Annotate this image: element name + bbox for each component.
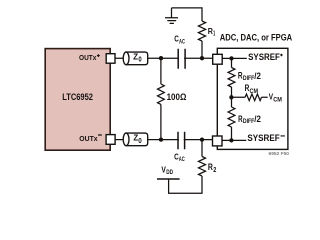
svg-text:SYSREF: SYSREF (248, 52, 280, 62)
svg-text:OUTx: OUTx (79, 53, 97, 62)
svg-text:DIFF: DIFF (243, 118, 254, 125)
svg-text:0: 0 (138, 57, 141, 64)
svg-text:0: 0 (138, 138, 142, 145)
svg-text:1: 1 (213, 31, 215, 38)
svg-text:DIFF: DIFF (243, 75, 254, 82)
svg-text:DD: DD (166, 169, 173, 176)
svg-text:2: 2 (213, 167, 216, 174)
svg-text:6952 F50: 6952 F50 (269, 151, 290, 157)
svg-text:/2: /2 (254, 71, 261, 81)
svg-text:AC: AC (179, 38, 185, 45)
svg-text:CM: CM (250, 88, 259, 95)
svg-text:OUTx: OUTx (79, 134, 98, 143)
svg-text:LTC6952: LTC6952 (62, 92, 93, 102)
svg-text:AC: AC (179, 156, 185, 163)
svg-text:CM: CM (273, 97, 282, 104)
svg-text:100Ω: 100Ω (167, 92, 187, 102)
svg-text:/2: /2 (254, 114, 261, 124)
svg-text:SYSREF: SYSREF (247, 133, 280, 143)
svg-text:ADC, DAC, or FPGA: ADC, DAC, or FPGA (220, 33, 293, 44)
